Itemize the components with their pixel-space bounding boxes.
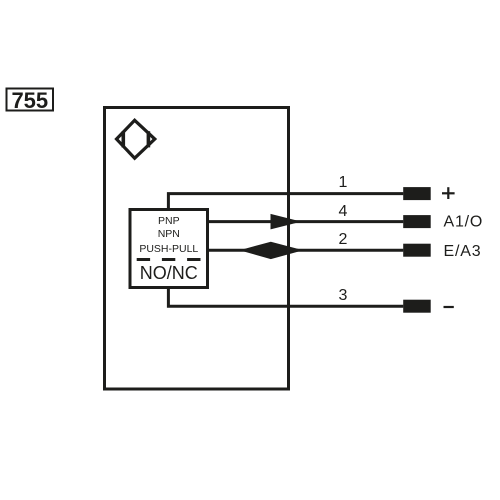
svg-text:2: 2 bbox=[339, 231, 348, 248]
svg-text:NPN: NPN bbox=[158, 228, 180, 240]
svg-text:E/A3: E/A3 bbox=[444, 243, 482, 260]
svg-text:4: 4 bbox=[339, 203, 348, 220]
svg-text:PNP: PNP bbox=[158, 215, 180, 227]
svg-text:A1/O: A1/O bbox=[444, 214, 484, 231]
svg-text:PUSH-PULL: PUSH-PULL bbox=[139, 243, 198, 255]
svg-text:NO/NC: NO/NC bbox=[140, 263, 198, 283]
svg-text:1: 1 bbox=[339, 174, 348, 191]
svg-text:3: 3 bbox=[339, 287, 348, 304]
svg-text:755: 755 bbox=[11, 88, 48, 113]
